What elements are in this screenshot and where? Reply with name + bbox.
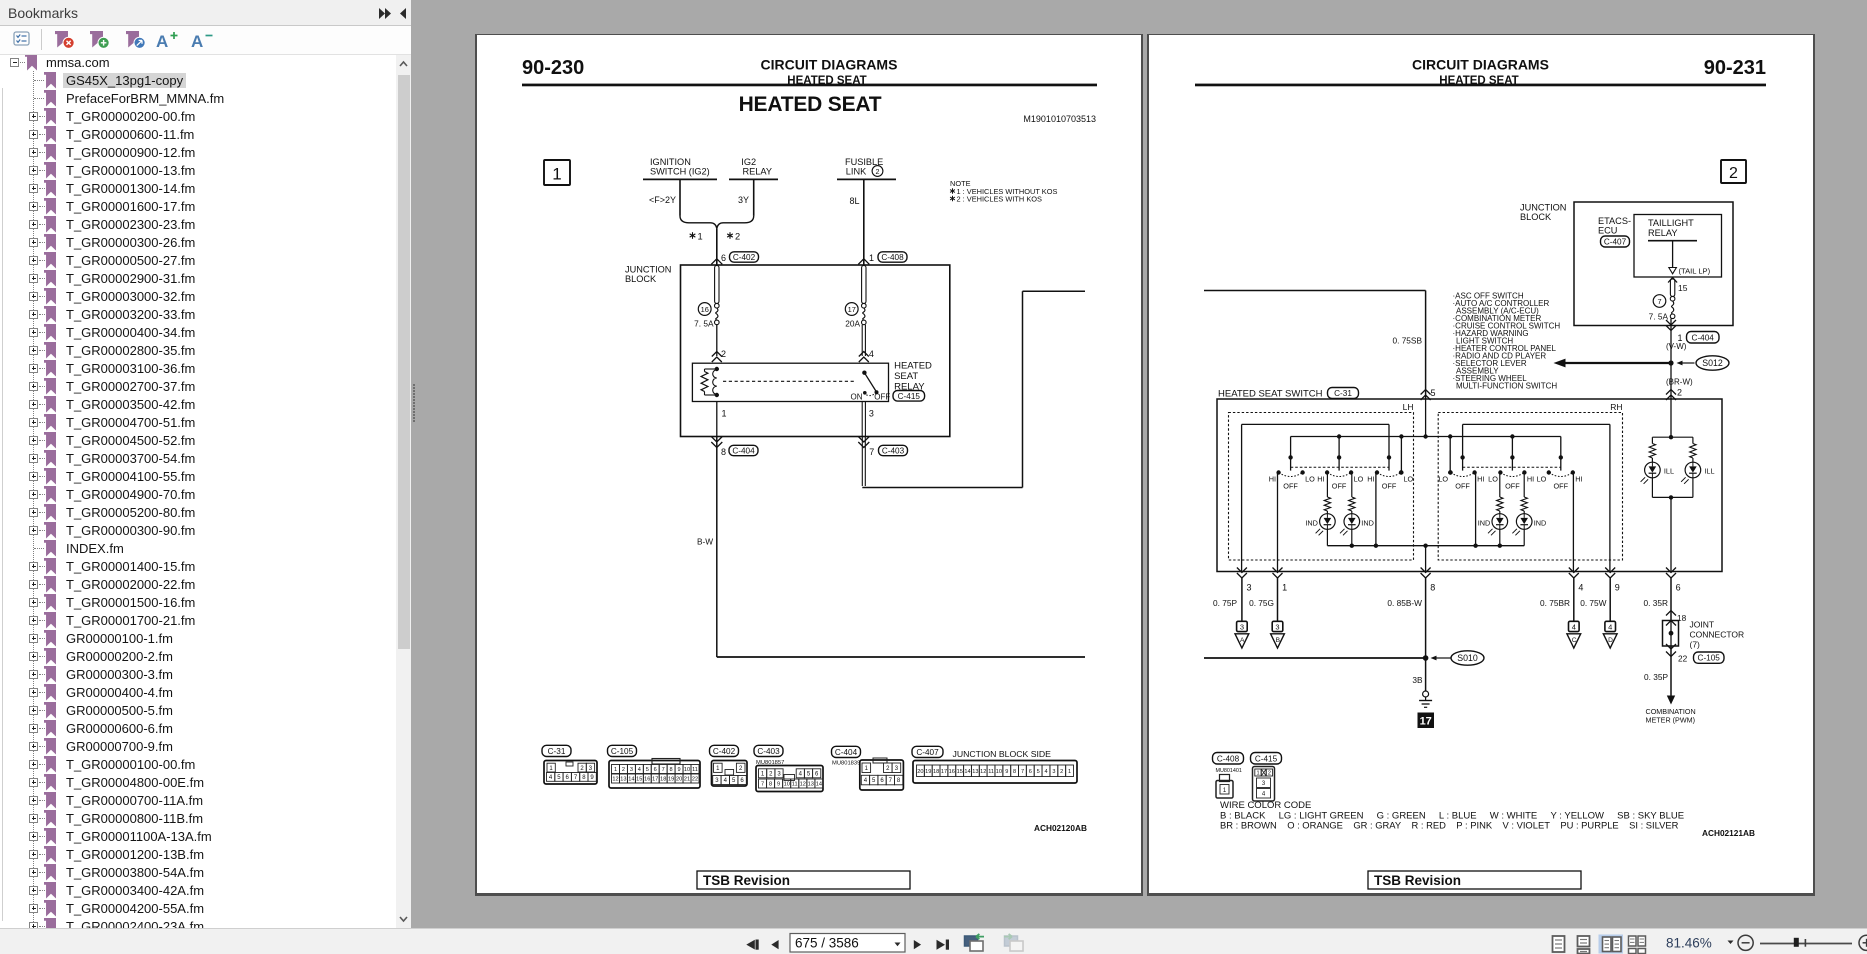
svg-text:2: 2 — [580, 766, 584, 772]
svg-text:3: 3 — [1262, 781, 1266, 787]
svg-text:HEATED SEAT SWITCH: HEATED SEAT SWITCH — [1218, 389, 1323, 400]
ETACS-ECU label, C-407 — [1598, 216, 1631, 247]
svg-text:C-402: C-402 — [713, 747, 736, 756]
svg-text:0. 75G: 0. 75G — [1249, 598, 1274, 608]
svg-text:2: 2 — [876, 167, 880, 176]
svg-text:(7): (7) — [1690, 640, 1701, 650]
svg-text:A: A — [191, 32, 203, 51]
svg-text:3: 3 — [630, 767, 633, 773]
svg-text:5: 5 — [1037, 769, 1040, 775]
splice S010 — [1431, 651, 1485, 665]
svg-text:1: 1 — [549, 766, 553, 772]
wire label (BR-W), pin 2 — [1666, 378, 1693, 398]
fusible link 2 — [837, 157, 896, 179]
terminal symbols A B C D — [1235, 578, 1617, 648]
connector C-408 pinout — [1213, 753, 1244, 799]
svg-text:LINK: LINK — [846, 167, 867, 177]
svg-text:15: 15 — [1678, 283, 1688, 293]
svg-text:11: 11 — [792, 782, 798, 788]
heated seat switch internals LH/RH — [1242, 399, 1610, 572]
svg-text:4: 4 — [724, 778, 728, 784]
wire from fusible link, label 8L — [849, 180, 863, 265]
relay output wire to page 2 (up route) — [862, 291, 1085, 487]
ground reference 17 — [1418, 713, 1435, 729]
svg-text:17: 17 — [848, 305, 856, 314]
svg-text:ECU: ECU — [1598, 226, 1617, 236]
svg-text:OFF: OFF — [1554, 482, 1569, 491]
svg-text:TSB Revision: TSB Revision — [703, 873, 790, 888]
svg-text:10: 10 — [684, 767, 690, 773]
svg-text:9: 9 — [1615, 583, 1620, 593]
svg-text:C-31: C-31 — [548, 747, 566, 756]
svg-text:13: 13 — [620, 777, 626, 783]
svg-text:8: 8 — [721, 447, 726, 457]
svg-text:C-415: C-415 — [898, 392, 921, 401]
svg-text:3: 3 — [1052, 769, 1055, 775]
fuse 17 (20A) — [845, 266, 866, 329]
wire 0.35P to combination meter — [1644, 646, 1696, 724]
svg-text:BLOCK: BLOCK — [625, 274, 657, 284]
fuse 16 (7.5A) — [694, 266, 719, 329]
svg-text:1: 1 — [1256, 771, 1259, 777]
svg-text:4: 4 — [549, 775, 553, 781]
svg-text:6: 6 — [1029, 769, 1032, 775]
svg-text:OFF: OFF — [1382, 482, 1397, 491]
junction node and arrow to components — [1554, 359, 1674, 368]
connector C-415 pinout — [1251, 753, 1282, 802]
svg-text:0. 75W: 0. 75W — [1580, 598, 1606, 608]
wire merge brace — [680, 216, 754, 228]
svg-text:10: 10 — [996, 769, 1002, 775]
svg-text:C-403: C-403 — [882, 447, 905, 456]
svg-text:16: 16 — [701, 305, 709, 314]
svg-text:HEATED SEAT: HEATED SEAT — [739, 93, 882, 116]
svg-text:OFF: OFF — [874, 392, 890, 401]
svg-text:12: 12 — [980, 769, 986, 775]
svg-text:C-404: C-404 — [732, 447, 755, 456]
svg-text:LO: LO — [1354, 475, 1364, 484]
TSB revision box — [1368, 871, 1581, 889]
svg-text:ILL: ILL — [1664, 467, 1674, 476]
ground bus wire from page 1 — [1204, 657, 1426, 659]
svg-text:90-230: 90-230 — [522, 57, 584, 79]
section number box 2 — [1721, 160, 1746, 183]
svg-text:3: 3 — [589, 766, 593, 772]
connector C-402 pinout — [710, 745, 748, 786]
svg-text:7: 7 — [1657, 297, 1661, 306]
svg-text:4: 4 — [1608, 622, 1612, 631]
svg-text:HI: HI — [1367, 475, 1374, 484]
svg-text:IND: IND — [1305, 519, 1318, 528]
svg-text:17: 17 — [652, 777, 658, 783]
connector C-105 pinout — [608, 745, 701, 788]
svg-text:HI: HI — [1527, 475, 1534, 484]
svg-text:C-407: C-407 — [1604, 238, 1627, 247]
svg-text:1: 1 — [716, 766, 720, 772]
svg-text:8: 8 — [582, 775, 586, 781]
svg-text:13: 13 — [808, 782, 814, 788]
svg-text:LO: LO — [1305, 475, 1315, 484]
svg-text:OFF: OFF — [1332, 482, 1347, 491]
svg-text:C-403: C-403 — [757, 747, 780, 756]
svg-text:ON: ON — [851, 392, 863, 401]
svg-text:2 : VEHICLES WITH KOS: 2 : VEHICLES WITH KOS — [957, 195, 1042, 204]
svg-text:1: 1 — [865, 766, 869, 772]
svg-text:JUNCTION: JUNCTION — [1520, 203, 1566, 213]
wire from IG2 relay, label 3Y — [738, 180, 754, 216]
svg-text:0. 75BR: 0. 75BR — [1540, 598, 1570, 608]
svg-text:CIRCUIT DIAGRAMS: CIRCUIT DIAGRAMS — [761, 57, 898, 73]
svg-text:RELAY: RELAY — [743, 167, 772, 177]
svg-text:5: 5 — [557, 775, 561, 781]
svg-text:C-105: C-105 — [611, 747, 634, 756]
svg-text:6: 6 — [815, 772, 819, 778]
svg-text:4: 4 — [1572, 622, 1576, 631]
svg-text:LO: LO — [1537, 475, 1547, 484]
svg-text:675 / 3586: 675 / 3586 — [795, 936, 859, 951]
IG2 relay — [729, 157, 778, 179]
svg-text:7: 7 — [889, 778, 893, 784]
svg-text:4: 4 — [1044, 769, 1047, 775]
svg-text:1: 1 — [552, 165, 561, 184]
svg-text:6: 6 — [654, 767, 657, 773]
svg-text:BLOCK: BLOCK — [1520, 212, 1552, 222]
svg-text:9: 9 — [590, 775, 594, 781]
wire from ignition switch, label 2Y — [649, 180, 680, 216]
pin 7 connector C-403 — [869, 445, 907, 457]
svg-text:2: 2 — [886, 766, 890, 772]
svg-text:13: 13 — [972, 769, 978, 775]
TSB revision box — [697, 871, 910, 889]
svg-text:C-404: C-404 — [1692, 334, 1715, 343]
svg-text:CONNECTOR: CONNECTOR — [1690, 630, 1745, 640]
heated seat relay box — [692, 363, 888, 401]
junction block label — [1520, 203, 1566, 223]
svg-text:9: 9 — [777, 782, 780, 788]
diagram code ACH02121AB — [1702, 828, 1755, 838]
svg-text:IND: IND — [1478, 519, 1491, 528]
splice S012 — [1677, 356, 1730, 370]
svg-text:5: 5 — [646, 767, 649, 773]
svg-text:C-407: C-407 — [916, 748, 939, 757]
heated seat switch box — [1217, 399, 1722, 572]
svg-text:14: 14 — [816, 782, 822, 788]
svg-text:6: 6 — [740, 778, 744, 784]
svg-text:IND: IND — [1361, 519, 1374, 528]
svg-text:4: 4 — [869, 349, 874, 359]
connector C-407 pinout (junction block side) — [912, 746, 1077, 783]
svg-text:1: 1 — [614, 767, 617, 773]
switch exit arrows and pin numbers — [1237, 568, 1681, 593]
entry arrow right — [858, 259, 869, 265]
svg-text:3B: 3B — [1412, 675, 1423, 685]
svg-text:TSB Revision: TSB Revision — [1374, 873, 1461, 888]
svg-text:<F>2Y: <F>2Y — [649, 195, 676, 205]
svg-text:METER (PWM): METER (PWM) — [1646, 715, 1696, 724]
svg-text:17: 17 — [1420, 716, 1432, 728]
junction block label — [625, 265, 671, 285]
svg-text:12: 12 — [800, 782, 806, 788]
svg-text:20: 20 — [917, 769, 923, 775]
svg-text:17: 17 — [941, 769, 947, 775]
svg-text:9: 9 — [1005, 769, 1008, 775]
svg-text:C-404: C-404 — [835, 748, 858, 757]
svg-text:7: 7 — [662, 767, 665, 773]
taillight relay output wire, TAIL LP — [1669, 242, 1711, 276]
svg-text:1: 1 — [761, 772, 765, 778]
svg-text:12: 12 — [612, 777, 618, 783]
svg-text:0. 35P: 0. 35P — [1644, 672, 1668, 682]
svg-text:18: 18 — [660, 777, 666, 783]
svg-text:C-415: C-415 — [1255, 754, 1278, 763]
ignition switch (IG2) — [643, 157, 717, 179]
svg-text:8: 8 — [1013, 769, 1016, 775]
0.75SB feed wire from page 1, pin 5 — [1204, 291, 1436, 401]
illumination lamps ILL — [1641, 399, 1715, 572]
wire label (V-W) — [1666, 342, 1687, 351]
entry arrow left — [711, 259, 722, 265]
svg-text:MULTI-FUNCTION SWITCH: MULTI-FUNCTION SWITCH — [1456, 382, 1557, 391]
svg-text:20A: 20A — [845, 319, 860, 329]
svg-text:4: 4 — [1578, 583, 1583, 593]
svg-text:2: 2 — [721, 349, 726, 359]
svg-text:A: A — [1240, 637, 1245, 644]
svg-text:MU801401: MU801401 — [1216, 768, 1242, 774]
svg-text:7. 5A: 7. 5A — [1649, 312, 1669, 322]
svg-text:ILL: ILL — [1704, 467, 1714, 476]
wire fuse16 to relay, pin 2 — [712, 325, 726, 362]
svg-text:OFF: OFF — [1283, 482, 1298, 491]
svg-text:MU801839: MU801839 — [832, 761, 860, 767]
RH dashed group — [1438, 402, 1622, 560]
svg-text:16: 16 — [644, 777, 650, 783]
svg-text:7: 7 — [1021, 769, 1024, 775]
header rule — [522, 84, 1097, 87]
LH dashed group — [1229, 402, 1414, 560]
svg-text:JUNCTION BLOCK SIDE: JUNCTION BLOCK SIDE — [953, 749, 1052, 759]
svg-text:8L: 8L — [849, 196, 859, 206]
svg-text:8: 8 — [769, 782, 772, 788]
svg-text:B-W: B-W — [697, 537, 713, 547]
svg-text:20: 20 — [676, 777, 682, 783]
section number box 1 — [544, 160, 570, 185]
svg-text:11: 11 — [692, 767, 698, 773]
svg-text:14: 14 — [628, 777, 634, 783]
svg-text:5: 5 — [732, 778, 736, 784]
svg-text:B: B — [1276, 637, 1281, 644]
svg-text:ACH02120AB: ACH02120AB — [1034, 823, 1087, 833]
note marker *2 — [727, 232, 740, 242]
note text — [950, 179, 1057, 204]
junction block box — [1574, 202, 1733, 326]
svg-text:7: 7 — [869, 447, 874, 457]
svg-text:1: 1 — [1068, 769, 1071, 775]
svg-text:5: 5 — [1431, 388, 1436, 398]
svg-text:1: 1 — [722, 409, 727, 419]
svg-text:0. 75SB: 0. 75SB — [1392, 336, 1422, 346]
svg-text:RELAY: RELAY — [1648, 228, 1677, 238]
relay dashed coupling — [723, 380, 855, 382]
svg-text:(TAIL LP): (TAIL LP) — [1679, 267, 1711, 276]
junction block box — [681, 265, 950, 437]
diagram code ACH02120AB — [1034, 823, 1087, 833]
svg-text:OFF: OFF — [1505, 482, 1520, 491]
svg-text:1: 1 — [869, 253, 874, 263]
pin 8 connector C-404 — [721, 445, 758, 457]
wire pin 8 to ground — [1412, 578, 1428, 691]
svg-text:C-31: C-31 — [1334, 389, 1352, 398]
svg-text:19: 19 — [668, 777, 674, 783]
svg-text:15: 15 — [636, 777, 642, 783]
svg-text:IND: IND — [1534, 519, 1547, 528]
heated seat switch label C-31 — [1218, 388, 1359, 400]
svg-text:2: 2 — [1677, 388, 1682, 398]
svg-text:JUNCTION: JUNCTION — [625, 265, 671, 275]
svg-text:M1901010703513: M1901010703513 — [1023, 114, 1096, 124]
merged wire down to junction block — [716, 228, 718, 265]
pin 1 connector C-408 — [869, 252, 907, 263]
svg-text:D: D — [1608, 637, 1613, 644]
svg-text:TAILLIGHT: TAILLIGHT — [1648, 218, 1694, 228]
svg-text:15: 15 — [957, 769, 963, 775]
svg-text:IG2: IG2 — [741, 157, 756, 167]
note marker *1 — [690, 232, 703, 242]
svg-text:IGNITION: IGNITION — [650, 157, 691, 167]
svg-text:19: 19 — [925, 769, 931, 775]
svg-text:2: 2 — [1268, 771, 1271, 777]
svg-text:3: 3 — [1247, 583, 1252, 593]
connector C-404 pinout — [832, 746, 904, 790]
svg-text:C-408: C-408 — [881, 253, 904, 262]
svg-text:LO: LO — [1404, 475, 1414, 484]
B-W wire down and right to page 2 — [697, 437, 1085, 658]
wire color code legend — [1220, 800, 1684, 831]
svg-text:0. 75P: 0. 75P — [1213, 598, 1237, 608]
svg-text:2: 2 — [1060, 769, 1063, 775]
svg-text:LO: LO — [1488, 475, 1498, 484]
svg-text:HEATED: HEATED — [894, 361, 932, 372]
svg-text:7: 7 — [761, 782, 764, 788]
svg-text:C: C — [1572, 637, 1577, 644]
svg-text:JOINT: JOINT — [1690, 620, 1715, 630]
svg-text:0. 35R: 0. 35R — [1644, 598, 1668, 608]
svg-text:2: 2 — [1729, 165, 1738, 182]
svg-text:LO: LO — [1438, 475, 1448, 484]
fuse 7 (7.5A) — [1649, 278, 1688, 322]
svg-text:9: 9 — [678, 767, 681, 773]
connector C-31 pinout — [542, 745, 597, 784]
heated seat relay label and C-415 — [893, 361, 932, 402]
pin 6 connector C-402 — [721, 252, 759, 263]
svg-text:OFF: OFF — [1455, 482, 1470, 491]
svg-text:7: 7 — [574, 775, 578, 781]
svg-text:S010: S010 — [1457, 653, 1478, 663]
svg-text:(BR-W): (BR-W) — [1666, 378, 1693, 387]
svg-text:ETACS-: ETACS- — [1598, 216, 1631, 226]
header rule — [1195, 84, 1766, 87]
svg-text:6: 6 — [1676, 583, 1681, 593]
svg-text:C-408: C-408 — [1217, 754, 1240, 763]
svg-text:8: 8 — [670, 767, 673, 773]
svg-text:5: 5 — [807, 772, 811, 778]
svg-text:81.46%: 81.46% — [1666, 936, 1712, 951]
svg-text:22: 22 — [1678, 654, 1688, 664]
svg-text:CIRCUIT DIAGRAMS: CIRCUIT DIAGRAMS — [1412, 57, 1549, 73]
wire size labels — [1213, 598, 1668, 608]
svg-text:6: 6 — [880, 778, 884, 784]
svg-text:90-231: 90-231 — [1704, 57, 1766, 79]
svg-text:3: 3 — [1240, 622, 1244, 631]
taillight relay box — [1634, 215, 1722, 278]
svg-text:S012: S012 — [1702, 358, 1723, 368]
svg-text:2: 2 — [739, 766, 743, 772]
svg-text:18: 18 — [933, 769, 939, 775]
relay switch ON/OFF — [851, 371, 891, 402]
svg-text:22: 22 — [692, 777, 698, 783]
joint connector (7), C-105 — [1663, 578, 1745, 664]
svg-text:1: 1 — [1223, 788, 1227, 794]
svg-text:2: 2 — [735, 232, 740, 242]
svg-text:3: 3 — [777, 772, 781, 778]
svg-text:1: 1 — [698, 232, 703, 242]
svg-text:HI: HI — [1317, 475, 1324, 484]
wire to C-404 pin 1 — [1666, 319, 1719, 363]
svg-text:2: 2 — [769, 772, 773, 778]
svg-text:HI: HI — [1575, 475, 1582, 484]
svg-text:C-105: C-105 — [1698, 654, 1721, 663]
svg-text:6: 6 — [566, 775, 570, 781]
svg-text:6: 6 — [721, 253, 726, 263]
wire fuse17 to relay, pin 4 (double) — [859, 325, 874, 362]
svg-text:4: 4 — [864, 778, 868, 784]
svg-text:5: 5 — [872, 778, 876, 784]
svg-text:HI: HI — [1269, 475, 1276, 484]
svg-text:11: 11 — [988, 769, 994, 775]
ground symbol — [1419, 691, 1432, 707]
svg-text:1: 1 — [1282, 583, 1287, 593]
relay coil and resistor — [701, 367, 719, 397]
svg-text:8: 8 — [1430, 583, 1435, 593]
svg-text:BR : BROWN O : ORANGE GR: BR : BROWN O : ORANGE GR : GRAY R : RED … — [1220, 820, 1679, 831]
svg-text:3Y: 3Y — [738, 195, 749, 205]
svg-text:3: 3 — [1275, 622, 1279, 631]
svg-text:(V-W): (V-W) — [1666, 342, 1687, 351]
component list — [1453, 292, 1561, 391]
svg-text:2: 2 — [622, 767, 625, 773]
wire from S012 to heated seat switch pin 2 — [1666, 363, 1676, 400]
svg-text:4: 4 — [638, 767, 641, 773]
svg-text:A: A — [156, 32, 168, 51]
relay output pin 3 wire (double) — [862, 402, 874, 437]
svg-text:3: 3 — [869, 409, 874, 419]
svg-text:7. 5A: 7. 5A — [694, 319, 714, 329]
svg-text:10: 10 — [784, 782, 790, 788]
svg-text:LH: LH — [1403, 402, 1414, 412]
svg-text:ACH02121AB: ACH02121AB — [1702, 828, 1755, 838]
svg-text:SWITCH (IG2): SWITCH (IG2) — [650, 167, 710, 177]
svg-text:HI: HI — [1477, 475, 1484, 484]
svg-text:4: 4 — [1262, 792, 1266, 798]
junction block exit arrows — [711, 437, 869, 448]
svg-text:8: 8 — [897, 778, 901, 784]
svg-text:14: 14 — [964, 769, 970, 775]
svg-text:RH: RH — [1610, 402, 1622, 412]
relay output pin 1 wire — [717, 402, 727, 437]
svg-text:4: 4 — [799, 772, 803, 778]
svg-text:SEAT: SEAT — [894, 371, 918, 382]
svg-text:3: 3 — [715, 778, 719, 784]
svg-text:21: 21 — [684, 777, 690, 783]
